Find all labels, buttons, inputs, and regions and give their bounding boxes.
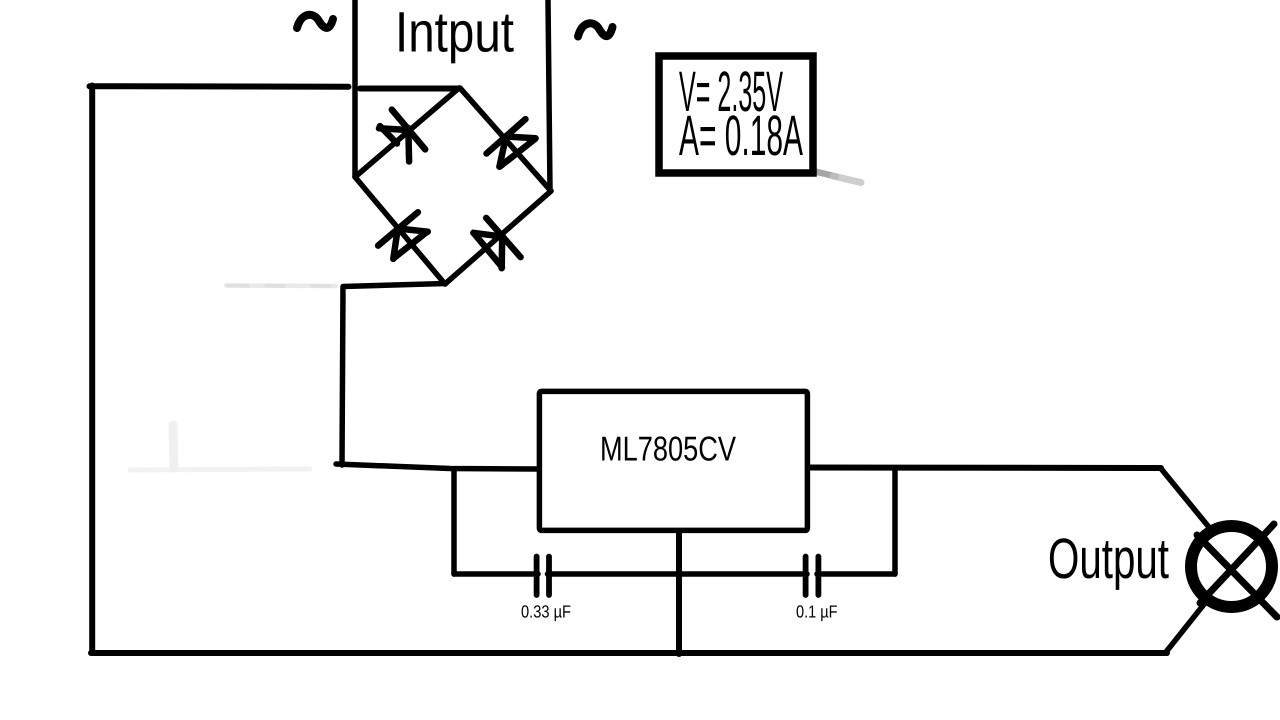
wire input AC left vertical — [352, 0, 358, 176]
meter box — [659, 56, 813, 173]
lamp X stroke 2 — [1200, 524, 1274, 603]
meter box shadow — [813, 171, 836, 177]
svg-text:0.1 µF: 0.1 µF — [796, 602, 838, 622]
svg-text:Output: Output — [1048, 527, 1169, 591]
wire top horizontal to bridge top vertex — [90, 86, 460, 88]
lamp circle — [1191, 526, 1272, 607]
diode D3 bottom-left — [378, 212, 428, 259]
wire output diagonal top — [1161, 468, 1209, 526]
bridge rectifier diamond — [355, 88, 551, 284]
wire capacitor bus left segment — [454, 571, 538, 577]
wire capacitor bus middle segment — [548, 571, 808, 577]
svg-text:0.33 µF: 0.33 µF — [521, 602, 571, 622]
regulator U1 box — [539, 391, 807, 530]
lamp X stroke 1 — [1197, 535, 1277, 617]
diode D2 top-right — [487, 119, 536, 167]
svg-text:ML7805CV: ML7805CV — [600, 431, 736, 469]
wire output diagonal bottom — [1166, 603, 1205, 652]
svg-text:Intput: Intput — [395, 1, 514, 65]
wire capacitor C1 drop vertical — [451, 469, 457, 574]
wire bridge bottom to regulator input — [336, 284, 539, 470]
wire capacitor bus right segment — [817, 571, 895, 577]
wire bottom bus — [91, 650, 1167, 656]
diode D1 top-left — [379, 110, 425, 162]
capacitor C1 plates — [537, 557, 549, 596]
AC tilde left — [297, 15, 333, 28]
wire input AC right vertical — [548, 0, 550, 190]
diode D4 bottom-right — [473, 218, 520, 268]
wire regulator output horizontal — [806, 465, 1161, 472]
AC tilde right — [578, 23, 613, 36]
wire left rail vertical — [89, 86, 95, 653]
wire capacitor C2 drop vertical — [892, 469, 898, 574]
capacitor C2 plates — [806, 557, 819, 596]
svg-text:A= 0.18A: A= 0.18A — [679, 104, 803, 168]
wire regulator ground vertical — [676, 530, 682, 654]
